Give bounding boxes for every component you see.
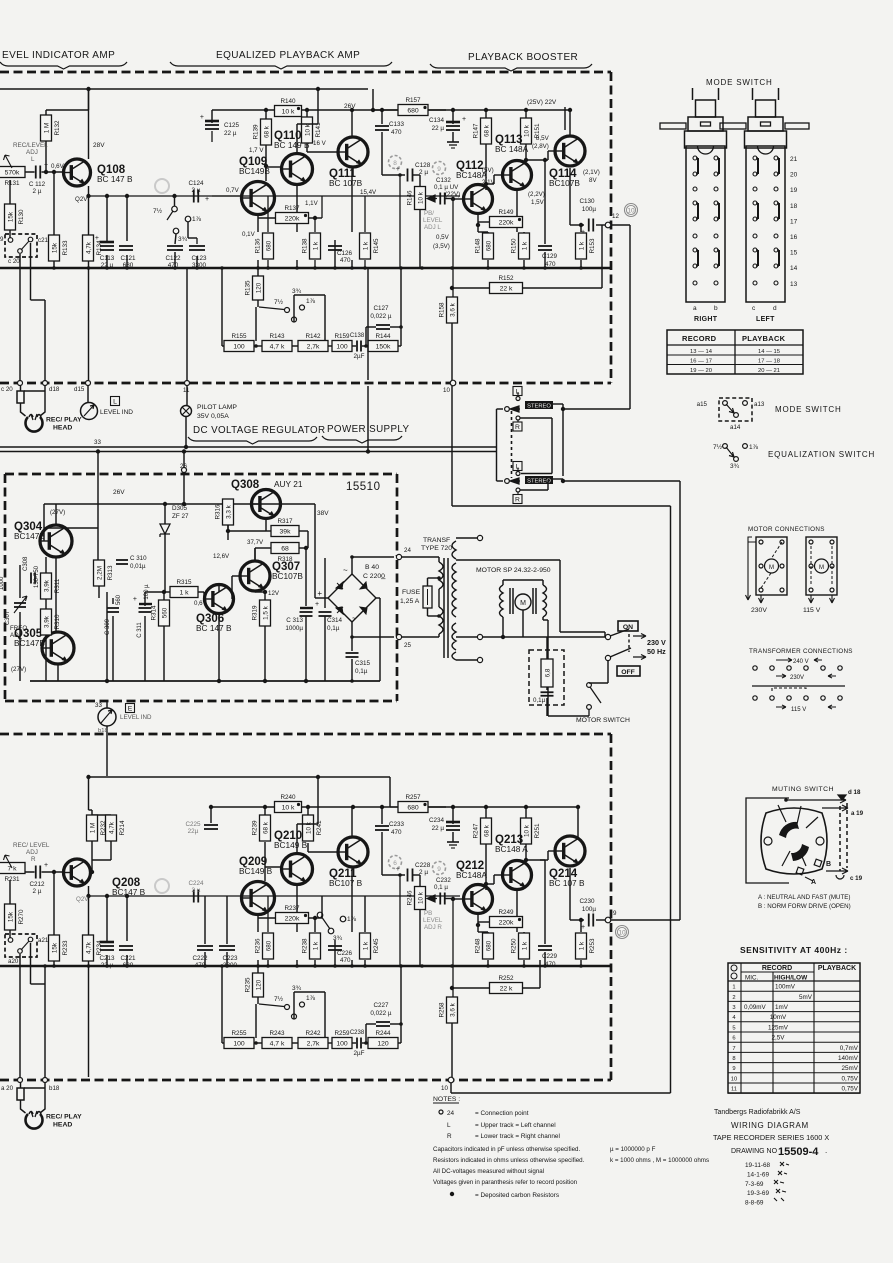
svg-text:68 k: 68 k [483, 124, 490, 137]
junction [316, 87, 320, 91]
svg-text:EVEL INDICATOR AMP: EVEL INDICATOR AMP [2, 50, 115, 61]
wire [210, 807, 212, 823]
svg-text:1⅞: 1⅞ [192, 216, 202, 223]
transistor Q114 BC107B [549, 136, 585, 188]
svg-text:R240: R240 [280, 794, 296, 801]
capacitor C122 470 [167, 246, 183, 250]
svg-text:R236: R236 [255, 938, 262, 954]
switch arm ON [610, 629, 629, 636]
svg-text:R313: R313 [107, 565, 114, 581]
svg-text:R242: R242 [305, 1030, 321, 1037]
svg-text:14: 14 [790, 265, 798, 272]
svg-text:38V: 38V [317, 510, 329, 517]
wire [478, 221, 490, 223]
transistor Q111 BC107B [329, 137, 368, 188]
junction [105, 194, 109, 198]
wire [428, 806, 446, 808]
switch arm [259, 307, 284, 310]
wire [428, 109, 446, 111]
wire [228, 530, 266, 532]
svg-text:2: 2 [732, 995, 735, 1001]
svg-text:14-1-69: 14-1-69 [747, 1171, 769, 1178]
svg-text:100: 100 [336, 1040, 348, 1047]
svg-text:2,7k: 2,7k [307, 1040, 320, 1047]
wire [588, 710, 590, 717]
capacitor C129 470 [538, 246, 552, 250]
wire [257, 260, 259, 268]
svg-text:BC147B: BC147B [14, 638, 45, 648]
wire [296, 824, 298, 853]
svg-text:D305: D305 [172, 505, 188, 512]
svg-text:2 µ: 2 µ [419, 169, 428, 176]
svg-text:4,7k: 4,7k [85, 941, 92, 954]
circled 10 (lower) [616, 926, 629, 939]
svg-text:R239: R239 [252, 820, 259, 836]
wire [372, 89, 374, 110]
svg-text:C134: C134 [429, 117, 445, 124]
svg-text:R142: R142 [305, 333, 321, 340]
svg-text:3300: 3300 [223, 962, 238, 969]
junction [264, 164, 268, 168]
wire [297, 823, 318, 825]
svg-text:B 40: B 40 [365, 564, 379, 571]
svg-text:680: 680 [485, 240, 492, 251]
wire [196, 256, 198, 268]
wire [367, 268, 369, 380]
wire resistor chain lower [221, 966, 223, 1043]
mode switch contacts [753, 156, 758, 176]
wire [112, 616, 114, 681]
svg-text:NOTES :: NOTES : [433, 1096, 460, 1103]
OFF switch [605, 655, 610, 660]
svg-text:R250: R250 [511, 938, 518, 954]
wire signal line lower [89, 895, 461, 897]
resistor R131 570k [0, 167, 25, 188]
wire [523, 287, 602, 289]
switch arm [321, 916, 330, 929]
svg-text:Resistors indicated in ohms: Resistors indicated in ohms unless other… [433, 1157, 585, 1164]
svg-text:1,5V: 1,5V [531, 199, 545, 206]
dashed border bottom (upper amp) [0, 382, 611, 385]
transistor Q210 BC149B [274, 830, 313, 885]
svg-text:0,1 µ UV: 0,1 µ UV [434, 184, 459, 191]
mode switch connector body [752, 88, 754, 100]
svg-text:TRANSFORMER CONNECTIONS: TRANSFORMER CONNECTIONS [749, 648, 853, 655]
svg-text:C 310: C 310 [130, 555, 147, 562]
wire [324, 616, 326, 681]
svg-text:15: 15 [790, 250, 798, 257]
pilot lamp [181, 406, 192, 417]
svg-text:C238: C238 [350, 1030, 365, 1036]
svg-text:470: 470 [545, 961, 556, 968]
wire [9, 230, 11, 240]
wire [445, 898, 453, 900]
wire 3-3/4 contact to chain [293, 295, 295, 322]
svg-text:220k: 220k [499, 919, 514, 926]
svg-text:120: 120 [255, 282, 262, 293]
wire power rail 28V [0, 88, 368, 90]
svg-text:A : NEUTRAL AND FAST (MUTE: A : NEUTRAL AND FAST (MUTE) [758, 894, 850, 901]
transistor Q110 BC149B [274, 130, 313, 185]
wire [483, 636, 605, 638]
wire b18 riser [30, 943, 32, 984]
svg-text:R231: R231 [4, 876, 20, 883]
svg-text:50 Hz: 50 Hz [647, 647, 666, 656]
svg-text:R233: R233 [62, 940, 69, 956]
svg-text:C314: C314 [327, 617, 343, 624]
switch arm [21, 241, 29, 250]
trimmer capacitor C307 1000 [14, 603, 26, 607]
wire [307, 151, 337, 153]
svg-text:2 µ: 2 µ [192, 187, 201, 194]
svg-text:220k: 220k [499, 219, 514, 226]
svg-text:9: 9 [613, 910, 617, 917]
svg-text:R237: R237 [284, 905, 300, 912]
wire Q208 emitter [88, 886, 90, 896]
svg-text:26V: 26V [113, 489, 125, 496]
svg-text:220k: 220k [285, 215, 300, 222]
svg-text:R310: R310 [54, 614, 61, 630]
svg-text:22 k: 22 k [500, 985, 513, 992]
svg-text:C128: C128 [415, 162, 431, 169]
wire [452, 132, 454, 142]
svg-text:25: 25 [404, 642, 411, 649]
svg-text:37,7V: 37,7V [247, 539, 264, 546]
wire [227, 525, 229, 531]
circled 6 ghost [389, 856, 402, 869]
wire [542, 580, 544, 585]
capacitor C113 22u electrolytic [100, 246, 114, 250]
svg-text:R152: R152 [498, 275, 514, 282]
wire Q114 collector [569, 110, 571, 136]
wire [485, 110, 487, 118]
svg-text:C213: C213 [99, 955, 115, 962]
resistor R319 1.5k [252, 600, 271, 626]
wire [89, 809, 93, 811]
capacitor C121 680 [119, 246, 133, 250]
wire [523, 232, 525, 233]
wire [106, 955, 108, 966]
svg-text:6: 6 [732, 1036, 735, 1042]
svg-text:100: 100 [233, 343, 245, 350]
transistor Q308 AUY21 [231, 479, 281, 519]
svg-text:+: + [44, 162, 48, 169]
resistor R243 4.7k [262, 1030, 292, 1049]
dashed border regulator bottom [5, 700, 397, 703]
wire [296, 885, 298, 932]
wire [324, 558, 326, 608]
svg-text:AUY 21: AUY 21 [274, 479, 303, 489]
svg-text:STEREO: STEREO [527, 404, 551, 410]
svg-text:140mV: 140mV [838, 1055, 859, 1062]
svg-text:3¾: 3¾ [292, 985, 302, 992]
wire [334, 240, 336, 268]
wire [211, 110, 213, 123]
svg-text:ZF 27: ZF 27 [172, 513, 189, 520]
wire [438, 557, 440, 562]
transistor Q112 BC148A [456, 160, 493, 214]
capacitor C127 0.022u [376, 325, 390, 329]
svg-text:240 V: 240 V [793, 659, 809, 665]
wire [546, 687, 548, 690]
transistor Q213 BC148A [495, 834, 532, 890]
wire [307, 531, 309, 548]
svg-text:470: 470 [545, 261, 556, 268]
junction [380, 805, 384, 809]
svg-text:0,6V: 0,6V [51, 163, 65, 170]
svg-text:22 µ: 22 µ [432, 825, 445, 832]
wire [580, 960, 582, 966]
wire [607, 660, 609, 683]
resistor R133 15k [49, 235, 70, 261]
junction Q112 base node [451, 197, 455, 201]
transistor Q208 BC147B [64, 859, 146, 897]
resistor R314 560 [151, 600, 170, 626]
wire [523, 260, 525, 268]
wire [266, 530, 271, 532]
wire [254, 548, 256, 561]
svg-text:1 k: 1 k [362, 941, 369, 950]
svg-text:10 k: 10 k [304, 123, 311, 136]
circled 8 ghost [389, 156, 402, 169]
box OFF [617, 666, 640, 676]
wire [257, 300, 259, 307]
svg-text:PB: PB [424, 910, 432, 917]
svg-text:LEVEL: LEVEL [423, 217, 443, 224]
svg-text:R132: R132 [54, 120, 61, 136]
wire [413, 874, 420, 876]
wire [92, 859, 111, 861]
svg-text:10 k: 10 k [305, 821, 312, 834]
wire [525, 844, 527, 860]
svg-text:.: . [825, 1146, 827, 1155]
svg-text:HEAD: HEAD [53, 1122, 72, 1129]
svg-text:L: L [447, 1122, 451, 1129]
wire [376, 597, 380, 599]
svg-text:+: + [133, 596, 137, 603]
wire [390, 326, 401, 328]
wire [452, 807, 454, 824]
svg-text:15k: 15k [51, 942, 58, 953]
switch eq contacts lower [285, 1005, 290, 1010]
svg-text:6,8: 6,8 [544, 668, 551, 677]
svg-text:b18: b18 [49, 1085, 60, 1092]
wire [305, 616, 307, 681]
dashed border regulator top [5, 473, 397, 476]
svg-text:R153: R153 [589, 238, 596, 254]
wire Q112 base [453, 198, 463, 200]
wire [174, 196, 176, 206]
junction [316, 775, 320, 779]
wire [315, 597, 328, 599]
wire [525, 807, 527, 818]
resistor R249 220k [490, 909, 523, 928]
box level ind lower [126, 704, 135, 713]
contact L2 [516, 472, 520, 476]
svg-text:PLAYBACK BOOSTER: PLAYBACK BOOSTER [468, 52, 578, 63]
dashed border regulator right mid [396, 560, 399, 637]
svg-text:2 µ: 2 µ [33, 188, 42, 195]
svg-text:C223: C223 [222, 955, 238, 962]
bracket under LEVEL INDICATOR AMP [0, 62, 127, 69]
resistor R316 3.3k [215, 499, 234, 525]
svg-text:TRANSF: TRANSF [423, 537, 450, 544]
capacitor C130 100u [589, 219, 594, 232]
resistor R147 68k [473, 118, 492, 144]
wire [204, 952, 206, 966]
wire [9, 930, 11, 940]
resistor R159 100 [332, 333, 352, 352]
wire [314, 558, 316, 598]
svg-text:= Lower track = Right ch: = Lower track = Right channel [475, 1133, 560, 1140]
mode switch connector body [692, 88, 694, 100]
svg-text:HIGH/LOW: HIGH/LOW [774, 975, 808, 982]
svg-text:100: 100 [233, 1040, 245, 1047]
svg-text:LEVEL IND: LEVEL IND [120, 714, 152, 721]
svg-text:a20: a20 [8, 958, 19, 965]
svg-text:BC 107B: BC 107B [329, 178, 363, 188]
wire [523, 987, 540, 989]
level indicator meter (upper) [81, 403, 98, 420]
wire [366, 326, 376, 328]
svg-text:1,7 V: 1,7 V [249, 147, 264, 154]
svg-text:10: 10 [618, 929, 626, 936]
svg-text:470: 470 [391, 829, 402, 836]
wire [452, 110, 454, 124]
svg-text:FREQ: FREQ [10, 625, 27, 632]
wire [226, 896, 228, 944]
svg-text:C224: C224 [188, 880, 204, 887]
capacitor C227 0.022u [376, 1022, 390, 1026]
svg-text:8-8-69: 8-8-69 [745, 1200, 764, 1207]
svg-text:MOTOR CONNECTIONS: MOTOR CONNECTIONS [748, 526, 825, 533]
svg-text:+: + [44, 862, 48, 869]
svg-text:2,2M: 2,2M [96, 566, 103, 580]
svg-text:470: 470 [340, 257, 351, 264]
switch arm [259, 1004, 284, 1007]
junction [484, 805, 488, 809]
svg-text:0,1µ: 0,1µ [327, 625, 340, 632]
svg-text:E: E [128, 706, 133, 713]
svg-text:10 k: 10 k [282, 804, 295, 811]
wire Q214 emitter to output lower [569, 868, 571, 920]
svg-text:LEVEL: LEVEL [423, 917, 443, 924]
wire [163, 592, 165, 600]
arrow trimmer R131 [4, 155, 13, 168]
capacitor C138 2uF [357, 341, 361, 352]
level indicator meter (lower) [98, 708, 116, 726]
wire [544, 860, 546, 896]
capacitor C225 22u [204, 825, 218, 829]
capacitor C222 470 [197, 946, 213, 950]
svg-text:R251: R251 [534, 823, 541, 839]
svg-text:C233: C233 [389, 821, 405, 828]
wire [452, 987, 490, 989]
wire [187, 222, 189, 238]
svg-text:16 V: 16 V [313, 140, 327, 147]
svg-text:21: 21 [790, 156, 798, 163]
capacitor C212 2u [36, 866, 41, 879]
capacitor C232 0.1u [440, 893, 445, 905]
svg-text:MODE SWITCH: MODE SWITCH [706, 78, 773, 87]
node 10 at dashed border [450, 380, 456, 386]
resistor R245 1k [360, 933, 381, 959]
resistor R134 4.7k [83, 235, 104, 261]
svg-text:R257: R257 [405, 794, 421, 801]
wire [186, 386, 188, 405]
capacitor C134 22u electrolytic [446, 126, 460, 130]
svg-text:4,7 k: 4,7 k [270, 343, 285, 350]
svg-text:WIRING DIAGRAM: WIRING DIAGRAM [731, 1121, 809, 1130]
svg-text:(27V): (27V) [11, 666, 26, 673]
wire [265, 145, 267, 181]
junction [263, 805, 267, 809]
wire [419, 175, 421, 187]
svg-text:d18: d18 [49, 386, 60, 393]
svg-text:Q2V: Q2V [75, 196, 88, 203]
record/playback table [667, 330, 803, 374]
svg-text:17: 17 [790, 218, 798, 225]
dashed border regulator right lower [396, 640, 399, 701]
wire node 33 down [97, 452, 99, 475]
wire Q113 collector to Q114 base [524, 158, 528, 162]
resistor R315 1k [170, 579, 198, 598]
transistor Q307 BC107B [240, 561, 303, 591]
wire rail2 lower [211, 806, 578, 808]
resistor R142 2.7k [298, 333, 328, 352]
wire [438, 634, 440, 637]
svg-text:PILOT LAMP: PILOT LAMP [197, 404, 237, 411]
svg-text:~: ~ [343, 566, 348, 575]
wire [309, 217, 322, 219]
svg-text:2 µ: 2 µ [419, 869, 428, 876]
resistor R239 68k [252, 815, 271, 841]
svg-text:3,9k: 3,9k [43, 615, 50, 628]
svg-text:1 k: 1 k [521, 941, 528, 950]
wire Q212 base lower [453, 898, 463, 900]
svg-text:REC/ PLAY: REC/ PLAY [46, 1114, 82, 1121]
wire [381, 807, 383, 824]
wire stereo2 right to bus corner [553, 478, 563, 480]
svg-text:9: 9 [732, 1066, 735, 1072]
svg-text:a14: a14 [730, 424, 741, 431]
junction [226, 529, 230, 533]
svg-text:(27V): (27V) [50, 509, 65, 516]
svg-text:PLAYBACK: PLAYBACK [818, 965, 856, 972]
junction [451, 805, 455, 809]
resistor R258 3,6 k [439, 997, 458, 1023]
svg-text:1 k: 1 k [578, 241, 585, 250]
wire [267, 960, 269, 966]
svg-text:ADJ: ADJ [26, 849, 38, 856]
svg-text:10 k: 10 k [417, 191, 424, 204]
svg-text:68 k: 68 k [483, 824, 490, 837]
wire [296, 260, 298, 268]
svg-text:+: + [317, 589, 322, 598]
svg-text:REC/ LEVEL: REC/ LEVEL [13, 842, 50, 849]
resistor R152 22k [490, 275, 523, 294]
mode switch tab right side [785, 123, 809, 129]
svg-text:a15: a15 [697, 401, 708, 408]
svg-text:12V: 12V [268, 590, 280, 597]
wire regulator top rail 26V [44, 503, 281, 505]
wire [232, 598, 234, 600]
svg-text:19-11-68: 19-11-68 [745, 1162, 771, 1169]
svg-text:PLAYBACK: PLAYBACK [742, 334, 786, 343]
svg-text:9: 9 [437, 166, 441, 173]
svg-text:1 M: 1 M [43, 123, 50, 134]
svg-text:Q2V: Q2V [76, 896, 89, 903]
